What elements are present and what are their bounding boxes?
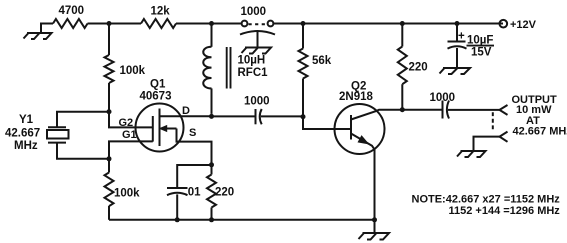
svg-text:Q1: Q1 — [150, 79, 166, 91]
output connector upper — [500, 105, 508, 115]
wire — [176, 23, 242, 25]
feedthrough capacitor 1000 — [242, 21, 248, 27]
wire bottom rail — [109, 219, 375, 221]
svg-text:NOTE:42.667 x27 =1152 MHz: NOTE:42.667 x27 =1152 MHz — [412, 193, 561, 205]
node (drain / RFC1 / coupling cap junction) — [209, 114, 214, 119]
resistor 4700 — [53, 19, 88, 28]
capacitor .01 — [167, 187, 188, 189]
svg-text:+: + — [458, 31, 465, 43]
node A (4700/12k/100k junction) — [107, 21, 112, 26]
transistor Q2 2N918 — [303, 117, 351, 129]
ground (10uF) — [440, 68, 471, 74]
node C (56k top) — [301, 21, 306, 26]
node (crystal top / G2 / 100k junction) — [107, 109, 112, 114]
node (220 bottom) — [209, 217, 214, 222]
node (.01 bottom) — [175, 217, 180, 222]
ground chassis top-left — [41, 24, 53, 33]
capacitor 1000 coupling (drain to base) — [212, 115, 256, 117]
svg-text:D: D — [182, 105, 190, 117]
svg-text:12k: 12k — [151, 6, 171, 18]
capacitor C 10uF 15V electrolytic — [456, 24, 458, 42]
terminal +12V — [500, 20, 508, 28]
svg-text:G2: G2 — [119, 117, 134, 129]
svg-text:2N918: 2N918 — [339, 91, 373, 103]
node B (12k/RFC1 junction) — [209, 21, 214, 26]
node (cap/56k/base junction) — [301, 114, 306, 119]
node D (220 top) — [400, 21, 405, 26]
node (emitter / rail) — [372, 217, 377, 222]
svg-text:100k: 100k — [120, 65, 146, 77]
ground (output) — [457, 151, 486, 157]
wire — [273, 23, 503, 25]
resistor 220 collector load — [401, 24, 403, 47]
svg-text:40673: 40673 — [140, 91, 172, 103]
svg-text:G1: G1 — [122, 129, 137, 141]
svg-text:42.667: 42.667 — [5, 127, 40, 139]
svg-text:100k: 100k — [114, 188, 140, 200]
svg-text:1000: 1000 — [241, 6, 267, 18]
resistor 100k lower — [108, 159, 110, 173]
wire — [88, 23, 142, 25]
svg-text:56k: 56k — [312, 55, 332, 67]
resistor 56k — [302, 24, 304, 49]
resistor 12k — [141, 19, 176, 28]
inductor RFC1 10uH — [211, 24, 213, 47]
wire crystal top — [57, 112, 109, 128]
wire to .01 — [177, 165, 211, 188]
wire crystal bottom — [57, 143, 109, 159]
svg-text:42.667 MHz: 42.667 MHz — [513, 126, 567, 138]
svg-text:RFC1: RFC1 — [238, 67, 269, 79]
ground (bottom) — [374, 220, 376, 233]
wire G2 — [109, 112, 153, 128]
node (collector / 220 / output cap) — [400, 107, 405, 112]
crystal Y1 42.667 MHz — [48, 126, 66, 128]
resistor 220 source — [211, 165, 213, 175]
svg-text:220: 220 — [215, 187, 234, 199]
svg-text:1000: 1000 — [244, 95, 270, 107]
svg-text:Y1: Y1 — [19, 114, 34, 126]
wire G1 — [109, 141, 153, 158]
svg-text:MHz: MHz — [14, 140, 38, 152]
wire top rail left segment — [41, 23, 53, 25]
svg-text:1000: 1000 — [430, 92, 456, 104]
MOSFET Q1 40673 — [136, 104, 184, 152]
svg-text:.01: .01 — [185, 187, 202, 199]
node E (10uF top) — [455, 21, 460, 26]
resistor 100k upper — [108, 24, 110, 56]
ground (feedthrough) — [242, 48, 272, 54]
node (S / .01 / 220 junction) — [209, 162, 214, 167]
wire output shield to ground — [474, 137, 500, 151]
node (crystal bottom / G1 / 100k junction) — [107, 156, 112, 161]
svg-text:4700: 4700 — [59, 5, 85, 17]
dashed line (coax) — [492, 112, 494, 132]
svg-text:S: S — [189, 127, 196, 139]
svg-text:220: 220 — [409, 62, 428, 74]
svg-text:10µH: 10µH — [238, 55, 266, 67]
output connector lower — [500, 132, 508, 142]
svg-text:1152 +144 =1296 MHz: 1152 +144 =1296 MHz — [449, 205, 561, 217]
svg-text:15V: 15V — [471, 47, 492, 59]
svg-text:+12V: +12V — [510, 19, 537, 31]
capacitor 1000 output — [402, 109, 442, 111]
